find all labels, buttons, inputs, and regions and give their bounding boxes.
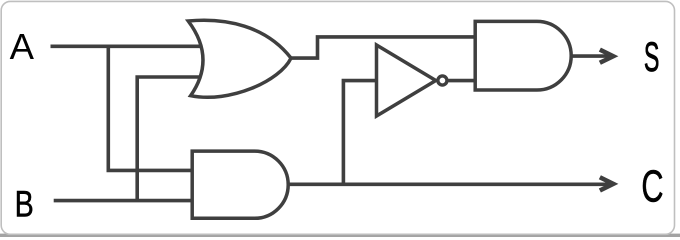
and-gate G3 (right, to S)	[475, 21, 571, 90]
svg-text:A: A	[10, 26, 35, 67]
svg-text:C: C	[641, 162, 663, 212]
arrowhead C	[599, 175, 619, 192]
wire C output	[288, 183, 611, 187]
and-gate G2 (bottom)	[192, 151, 288, 218]
wire C branch to NOT input	[343, 81, 376, 184]
svg-text:S: S	[644, 34, 660, 81]
wire A input	[51, 44, 201, 48]
wire S output	[571, 54, 611, 58]
not-gate U1 triangle	[377, 45, 436, 116]
wire B branch to OR	[137, 77, 200, 201]
wire B input	[54, 199, 192, 203]
wire NOT output to AND2 bottom input	[448, 79, 475, 83]
or-gate G1	[188, 20, 291, 97]
arrowhead S	[599, 48, 619, 65]
wire OR output to AND2 top input	[291, 37, 475, 58]
wire A branch to AND1	[108, 46, 192, 170]
svg-text:B: B	[15, 184, 34, 226]
not-gate U1 bubble	[438, 76, 447, 85]
